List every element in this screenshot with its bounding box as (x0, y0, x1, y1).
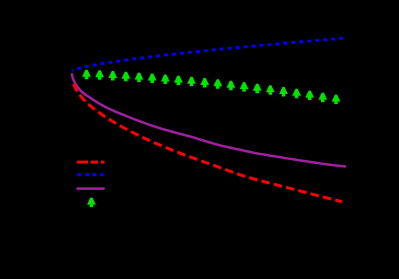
curve red dashed (decaying fast) (74, 84, 342, 202)
curve blue dotted (rising) (72, 38, 343, 70)
legend red dashed sample (77, 161, 105, 164)
legend blue dotted sample (77, 173, 104, 176)
green marker series (20 triangle-tree points) (82, 70, 340, 104)
curve purple solid (decaying) (72, 73, 346, 166)
legend purple solid sample (77, 187, 105, 190)
legend green marker sample (87, 198, 96, 208)
